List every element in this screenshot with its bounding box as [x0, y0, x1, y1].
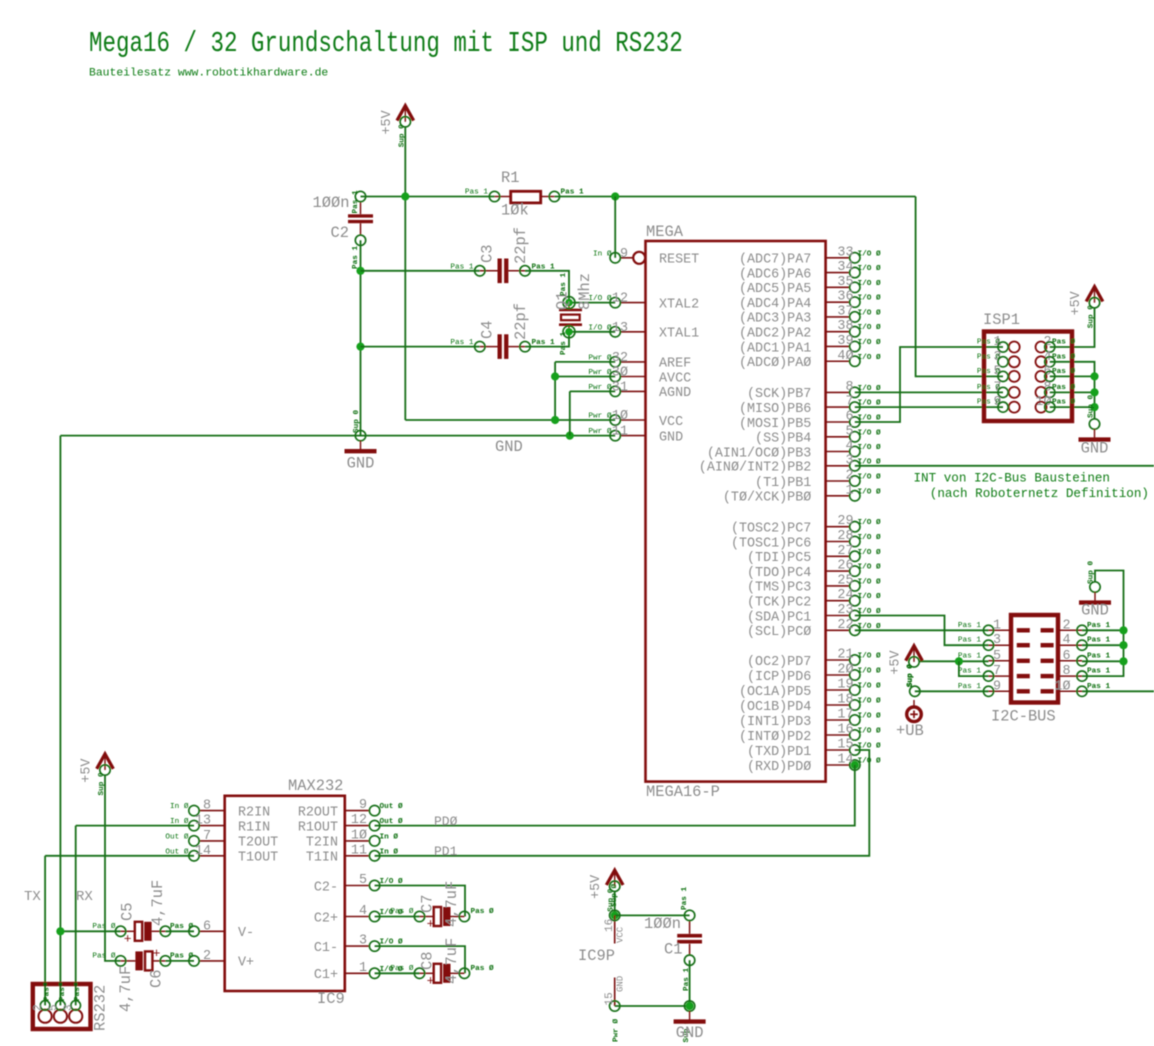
RS232 pin 2 — [33, 983, 52, 1023]
MEGA pin 21 (OC2)PD7 — [747, 648, 881, 670]
MEGA pin 29 (TOSC2)PC7 — [731, 514, 881, 536]
svg-text:V+: V+ — [238, 956, 254, 971]
wire GND rail horizontal — [60, 435, 615, 437]
I2C-BUS pin 9 — [958, 679, 1030, 696]
svg-text:(T1)PB1: (T1)PB1 — [755, 476, 811, 491]
wire C6 to V+ — [165, 960, 194, 962]
svg-text:12: 12 — [612, 292, 628, 307]
svg-text:22pf: 22pf — [512, 303, 530, 340]
svg-text:Pas Ø: Pas Ø — [1052, 352, 1075, 361]
svg-text:4: 4 — [359, 904, 367, 919]
svg-text:8: 8 — [203, 799, 211, 814]
wire C4 row from rail to cap — [361, 346, 480, 348]
ISP1 pin 2 — [1036, 335, 1076, 353]
capacitor C6 4,7uF — [115, 946, 170, 970]
svg-text:I/O Ø: I/O Ø — [858, 487, 881, 496]
svg-text:Bauteilesatz www.robotikhardwa: Bauteilesatz www.robotikhardware.de — [89, 68, 328, 80]
svg-text:2: 2 — [845, 469, 853, 484]
svg-text:(INT1)PD3: (INT1)PD3 — [739, 715, 811, 730]
svg-text:(SDA)PC1: (SDA)PC1 — [747, 610, 811, 625]
svg-text:I/O Ø: I/O Ø — [858, 308, 881, 317]
svg-text:Pas 1: Pas 1 — [1087, 683, 1110, 691]
svg-text:C1+: C1+ — [314, 968, 338, 983]
supply +5V (IC9P) — [589, 870, 623, 912]
svg-text:+: + — [427, 973, 435, 988]
svg-text:RX: RX — [76, 889, 93, 905]
wire ISP pin8 row — [1050, 391, 1095, 393]
svg-text:AGND: AGND — [659, 386, 691, 401]
junction GND C5 row — [56, 927, 64, 935]
svg-text:I/O Ø: I/O Ø — [858, 279, 881, 288]
svg-text:(TOSC2)PC7: (TOSC2)PC7 — [731, 522, 811, 537]
wire C1- to C8 — [375, 946, 465, 973]
svg-text:MEGA: MEGA — [646, 223, 684, 241]
svg-text:23: 23 — [837, 603, 853, 618]
svg-text:C8: C8 — [419, 952, 437, 970]
svg-text:I/O Ø: I/O Ø — [858, 249, 881, 258]
wire AREF riser vertical — [554, 362, 556, 420]
svg-text:(ADC4)PA4: (ADC4)PA4 — [739, 297, 811, 312]
svg-text:(ADCØ)PAØ: (ADCØ)PAØ — [739, 356, 811, 371]
svg-text:Pas 1: Pas 1 — [352, 190, 360, 213]
ISP1 pin 6 — [1036, 364, 1076, 382]
supply +5V (ISP) — [1069, 287, 1103, 329]
MEGA pin 27 (TDI)PC5 — [747, 544, 881, 566]
svg-text:In Ø: In Ø — [380, 847, 399, 856]
MAX232 pin 14 T1OUT — [165, 844, 278, 866]
svg-text:GND: GND — [616, 976, 626, 992]
svg-text:In Ø: In Ø — [593, 249, 612, 258]
MEGA pin 18 (OC1B)PD4 — [739, 693, 881, 715]
MEGA pin 31 AGND — [588, 380, 691, 401]
svg-text:9: 9 — [620, 247, 628, 262]
capacitor C2 plates — [348, 191, 373, 245]
wire C3 row from rail to cap — [361, 270, 480, 272]
svg-text:4: 4 — [845, 439, 853, 454]
svg-text:VCC: VCC — [616, 926, 626, 943]
svg-text:+UB: +UB — [896, 722, 924, 740]
wire AREF row to pin — [555, 361, 615, 363]
svg-text:Out Ø: Out Ø — [380, 817, 403, 826]
wire SDA PC1 to I2C pin3 — [855, 616, 989, 646]
IC IC9 MAX232 outline — [225, 796, 345, 991]
svg-text:Pas Ø: Pas Ø — [1052, 367, 1075, 376]
wire C2 to GND rail vertical — [360, 240, 362, 435]
capacitor C5 4,7uF — [115, 922, 170, 947]
wire I2C pin10 to right edge — [1082, 690, 1154, 692]
svg-text:R1IN: R1IN — [238, 820, 270, 835]
svg-text:T1IN: T1IN — [306, 851, 338, 866]
svg-text:C5: C5 — [119, 903, 137, 921]
I2C-BUS pin 1 — [958, 618, 1030, 635]
svg-text:+: + — [427, 917, 435, 932]
wire I2C pin6 row — [1082, 660, 1124, 662]
junction C3 row on C2 drop — [356, 267, 364, 275]
svg-text:Out Ø: Out Ø — [380, 802, 403, 811]
svg-text:C7: C7 — [419, 895, 437, 913]
svg-text:31: 31 — [612, 380, 628, 395]
MEGA pin 32 AREF — [588, 351, 691, 372]
MEGA pin 36 (ADC4)PA4 — [739, 290, 881, 312]
wire XTAL1 row — [569, 331, 615, 333]
wire RESET net from R1 to ISP riser — [554, 196, 915, 198]
svg-text:IC9P: IC9P — [578, 947, 615, 965]
svg-text:+: + — [153, 946, 161, 961]
svg-text:RESET: RESET — [659, 253, 699, 268]
svg-text:+: + — [124, 932, 132, 947]
junction C1 GND — [686, 1002, 694, 1010]
svg-text:I/O Ø: I/O Ø — [588, 323, 611, 332]
svg-text:C2+: C2+ — [314, 911, 338, 926]
svg-text:(ADC1)PA1: (ADC1)PA1 — [739, 341, 811, 356]
junction RESET drop to MEGA pin 9 — [611, 192, 619, 200]
supply +UB — [907, 686, 922, 722]
svg-text:In Ø: In Ø — [170, 802, 189, 811]
ground symbol GND (ISP) — [1079, 419, 1111, 458]
svg-text:Pas Ø: Pas Ø — [977, 367, 1000, 376]
svg-text:(ADC6)PA6: (ADC6)PA6 — [739, 267, 811, 282]
svg-text:Pas 1: Pas 1 — [352, 246, 360, 269]
svg-text:(ADC5)PA5: (ADC5)PA5 — [739, 282, 811, 297]
svg-text:PD1: PD1 — [434, 844, 458, 859]
svg-text:Pas 1: Pas 1 — [1087, 622, 1110, 630]
svg-text:(TMS)PC3: (TMS)PC3 — [747, 581, 811, 596]
MEGA pin 15 (TXD)PD1 — [747, 738, 881, 760]
svg-text:Pwr Ø: Pwr Ø — [588, 412, 611, 421]
wire TX drop to RS232 — [44, 856, 46, 1006]
svg-text:Pas 1: Pas 1 — [561, 189, 584, 197]
junction I2C pin6 GND — [1119, 657, 1127, 665]
svg-text:Pas 1: Pas 1 — [958, 637, 981, 645]
svg-text:1Ø: 1Ø — [351, 828, 367, 843]
svg-text:GND: GND — [1081, 602, 1109, 620]
svg-text:(INTØ)PD2: (INTØ)PD2 — [739, 730, 811, 745]
svg-text:6: 6 — [203, 919, 211, 934]
svg-text:1: 1 — [359, 961, 367, 976]
crystal Q1 body — [559, 297, 582, 338]
I2C-BUS pin 8 — [1041, 664, 1111, 681]
svg-text:11: 11 — [351, 843, 367, 858]
svg-text:(TDO)PC4: (TDO)PC4 — [747, 566, 811, 581]
svg-text:Pas Ø: Pas Ø — [977, 338, 1000, 347]
MEGA pin 3 (AIN0/INT2)PB2 — [699, 453, 881, 475]
svg-text:3: 3 — [63, 1004, 75, 1011]
svg-text:I/O Ø: I/O Ø — [858, 577, 881, 586]
svg-text:Sup Ø: Sup Ø — [610, 884, 619, 907]
svg-text:9: 9 — [359, 798, 367, 813]
svg-text:C3: C3 — [479, 245, 497, 263]
svg-text:(TØ/XCK)PBØ: (TØ/XCK)PBØ — [723, 491, 811, 506]
svg-text:I/O Ø: I/O Ø — [858, 473, 881, 482]
wire +5V vertical from supply to VCC corner — [404, 127, 406, 420]
svg-text:Pas 1: Pas 1 — [958, 652, 981, 660]
junction ISP pin8 GND bus — [1090, 388, 1098, 396]
MEGA pin 19 (OC1A)PD5 — [739, 678, 881, 700]
svg-text:1ØØn: 1ØØn — [644, 915, 681, 933]
MEGA pin 22 (SCL)PC0 — [747, 618, 881, 640]
svg-text:Pas Ø: Pas Ø — [471, 907, 494, 916]
MAX232 pin 6 V- — [189, 919, 254, 941]
svg-text:26: 26 — [837, 559, 853, 574]
svg-text:13: 13 — [612, 321, 628, 336]
RS232 pin 5 — [48, 983, 67, 1023]
svg-text:6: 6 — [845, 410, 853, 425]
svg-text:28: 28 — [837, 529, 853, 544]
svg-text:Pas Ø: Pas Ø — [977, 383, 1000, 392]
ISP1 pin 3 — [977, 350, 1020, 368]
svg-text:8: 8 — [845, 380, 853, 395]
svg-text:12: 12 — [351, 813, 367, 828]
MEGA pin 40 (ADC0)PA0 — [739, 349, 881, 371]
wire AVCC row to pin — [555, 376, 615, 378]
svg-text:XTAL1: XTAL1 — [659, 327, 699, 342]
MAX232 pin 4 C2+ — [314, 904, 403, 926]
wire C1+ to C8 — [375, 972, 420, 974]
svg-text:39: 39 — [837, 334, 853, 349]
MEGA pin 28 (TOSC1)PC6 — [731, 529, 881, 551]
svg-text:Pas Ø: Pas Ø — [977, 398, 1000, 407]
svg-text:Pas 1: Pas 1 — [450, 339, 473, 347]
svg-text:+5V: +5V — [889, 650, 904, 674]
MEGA pin 24 (TCK)PC2 — [747, 588, 881, 610]
junction I2C pin2 GND — [1119, 626, 1127, 634]
svg-text:2: 2 — [203, 949, 211, 964]
svg-text:+5V: +5V — [1069, 291, 1084, 315]
capacitor C1 plates — [677, 910, 702, 965]
svg-text:I/O Ø: I/O Ø — [858, 667, 881, 676]
svg-text:Pas 1: Pas 1 — [450, 263, 473, 271]
svg-text:AVCC: AVCC — [659, 371, 691, 386]
svg-text:(ADC2)PA2: (ADC2)PA2 — [739, 327, 811, 342]
IC9P pin15 — [604, 976, 626, 1042]
wire +5V to I2C pin5 — [919, 660, 989, 662]
svg-text:Pwr Ø: Pwr Ø — [588, 383, 611, 392]
svg-text:27: 27 — [837, 544, 853, 559]
svg-text:33: 33 — [837, 245, 853, 260]
svg-text:T1OUT: T1OUT — [238, 851, 278, 866]
svg-text:(SS)PB4: (SS)PB4 — [755, 432, 811, 447]
connector I2C-BUS outline — [1011, 615, 1058, 703]
svg-text:16: 16 — [604, 919, 616, 932]
svg-text:(SCK)PB7: (SCK)PB7 — [747, 387, 811, 402]
I2C-BUS pin 3 — [958, 633, 1030, 650]
MEGA pin 37 (ADC3)PA3 — [739, 304, 881, 326]
wire +5V horizontal C2 to R1 — [361, 196, 495, 198]
MEGA pin 20 (ICP)PD6 — [747, 663, 881, 685]
svg-text:Pas Ø: Pas Ø — [92, 952, 115, 961]
svg-text:(TXD)PD1: (TXD)PD1 — [747, 745, 811, 760]
I2C-BUS pin 7 — [958, 664, 1030, 681]
connector ISP1 outline — [984, 332, 1072, 422]
svg-text:+5V: +5V — [380, 110, 395, 134]
junction VCC riser — [551, 416, 559, 424]
svg-text:I/O Ø: I/O Ø — [858, 533, 881, 542]
MAX232 pin 8 R2IN — [170, 799, 270, 821]
wire +5V to VCC pin16 — [614, 892, 616, 916]
svg-text:C2: C2 — [331, 224, 349, 242]
svg-text:Pwr Ø: Pwr Ø — [588, 427, 611, 436]
svg-text:MEGA16-P: MEGA16-P — [646, 783, 720, 801]
svg-text:24: 24 — [837, 588, 853, 603]
svg-text:Pas 1: Pas 1 — [1087, 637, 1110, 645]
I2C-BUS pin 5 — [958, 649, 1030, 666]
svg-text:R1: R1 — [501, 169, 519, 187]
MEGA pin 13 XTAL1 — [588, 321, 699, 342]
svg-text:I/O Ø: I/O Ø — [858, 353, 881, 362]
ISP1 pin 9 — [977, 395, 1020, 413]
svg-text:17: 17 — [837, 708, 853, 723]
svg-text:Pas 1: Pas 1 — [958, 622, 981, 630]
svg-text:I/O Ø: I/O Ø — [858, 518, 881, 527]
svg-text:Pas Ø: Pas Ø — [1052, 383, 1075, 392]
MAX232 pin 11 T1IN — [306, 843, 398, 865]
svg-text:11: 11 — [612, 425, 628, 440]
MEGA pin 17 (INT1)PD3 — [739, 708, 881, 730]
svg-text:Pas Ø: Pas Ø — [170, 922, 193, 931]
MAX232 pin 3 C1- — [314, 934, 403, 956]
MEGA pin 5 (SS)PB4 — [755, 424, 881, 446]
svg-text:I/O Ø: I/O Ø — [858, 428, 881, 437]
MEGA pin 30 AVCC — [588, 366, 691, 387]
svg-text:Out Ø: Out Ø — [165, 832, 188, 841]
wire C3 to crystal top — [525, 271, 569, 303]
svg-text:I/O Ø: I/O Ø — [858, 443, 881, 452]
svg-text:Pas 1: Pas 1 — [681, 887, 689, 910]
MEGA pin 4 (AIN1/OC0)PB3 — [707, 439, 881, 461]
MEGA pin 39 (ADC1)PA1 — [739, 334, 881, 356]
MEGA pin 35 (ADC5)PA5 — [739, 275, 881, 297]
svg-text:I/O Ø: I/O Ø — [858, 563, 881, 572]
wire RESET riser to ISP pin 5 — [916, 197, 1003, 377]
svg-text:(RXD)PDØ: (RXD)PDØ — [747, 760, 811, 775]
svg-text:Pas 1: Pas 1 — [560, 332, 568, 355]
IC U1 MEGA16-P outline — [646, 241, 826, 782]
svg-text:Pas 1: Pas 1 — [560, 273, 568, 296]
ground symbol GND (IC9P) — [674, 1001, 706, 1042]
svg-text:(ADC3)PA3: (ADC3)PA3 — [739, 312, 811, 327]
svg-text:(MISO)PB6: (MISO)PB6 — [739, 402, 811, 417]
junction ISP pin6 GND bus — [1090, 372, 1098, 380]
I2C-BUS pin 2 — [1041, 618, 1111, 635]
svg-text:ISP1: ISP1 — [983, 311, 1020, 329]
wire GND rail left drop to RS232 — [59, 436, 61, 1006]
svg-text:(OC2)PD7: (OC2)PD7 — [747, 655, 811, 670]
junction ISP pin10 GND bus — [1090, 403, 1098, 411]
svg-text:1Øk: 1Øk — [501, 202, 529, 220]
svg-text:I/O Ø: I/O Ø — [858, 697, 881, 706]
ISP1 pin 7 — [977, 380, 1020, 398]
wire TX T1OUT net — [45, 855, 194, 857]
svg-text:1ØØn: 1ØØn — [313, 194, 350, 212]
svg-text:Pas: Pas — [74, 987, 82, 1001]
IC9P pin16 — [604, 884, 626, 944]
junction +5V I2C split — [955, 657, 963, 665]
wire VCC row to pin — [555, 419, 615, 421]
svg-text:I/O Ø: I/O Ø — [858, 294, 881, 303]
wire C5 to V- — [165, 930, 194, 932]
svg-text:Pas 1: Pas 1 — [1087, 668, 1110, 676]
svg-text:I/O Ø: I/O Ø — [858, 652, 881, 661]
wire ISP pin6 row — [1050, 375, 1095, 377]
svg-text:4,7uF: 4,7uF — [149, 880, 167, 926]
connector RS232 outline — [33, 984, 91, 1029]
svg-text:35: 35 — [837, 275, 853, 290]
svg-text:5: 5 — [359, 873, 367, 888]
wire +UB to I2C pin9 — [915, 690, 989, 692]
ground symbol GND (I2C) — [1079, 582, 1111, 620]
MEGA pin 7 (MISO)PB6 — [739, 395, 881, 417]
MEGA pin 6 (MOSI)PB5 — [739, 410, 881, 432]
svg-text:15: 15 — [604, 992, 616, 1005]
wire MOSI PB5 to ISP pin1 — [855, 347, 1003, 422]
MAX232 pin 13 R1IN — [170, 814, 270, 836]
svg-text:Pas Ø: Pas Ø — [1052, 398, 1075, 407]
capacitor C7 4,7uF — [414, 907, 469, 932]
junction VCC pin16 — [611, 911, 619, 919]
wire AGND row to pin — [570, 390, 615, 392]
ISP1 pin 8 — [1036, 380, 1076, 398]
svg-text:Pas Ø: Pas Ø — [1052, 338, 1075, 347]
wire PD1 net — [375, 750, 870, 856]
svg-text:Sup 0: Sup 0 — [1088, 561, 1096, 584]
svg-text:4,7uF: 4,7uF — [443, 881, 461, 927]
svg-text:Pwr Ø: Pwr Ø — [612, 1019, 621, 1042]
svg-text:1Ø: 1Ø — [612, 409, 628, 424]
capacitor C8 4,7uF — [414, 964, 469, 989]
junction AGND riser on GND rail — [566, 432, 574, 440]
svg-text:8Mhz: 8Mhz — [576, 273, 594, 310]
svg-text:21: 21 — [837, 648, 853, 663]
svg-text:Sup 0: Sup 0 — [353, 410, 361, 433]
svg-text:38: 38 — [837, 319, 853, 334]
MEGA pin 14 (RXD)PD0 — [747, 753, 881, 775]
svg-text:I/O Ø: I/O Ø — [588, 294, 611, 303]
svg-text:Pas 1: Pas 1 — [958, 668, 981, 676]
svg-text:Sup 0: Sup 0 — [1088, 395, 1096, 418]
svg-text:32: 32 — [612, 351, 628, 366]
svg-text:Pas 1: Pas 1 — [532, 339, 555, 347]
svg-text:R2OUT: R2OUT — [298, 805, 338, 820]
svg-text:14: 14 — [195, 844, 211, 859]
svg-text:25: 25 — [837, 573, 853, 588]
svg-text:3: 3 — [845, 453, 853, 468]
svg-text:GND: GND — [676, 1024, 704, 1042]
svg-text:INT von I2C-Bus Bausteinen: INT von I2C-Bus Bausteinen — [914, 472, 1111, 486]
junction AVCC riser — [551, 372, 559, 380]
junction C4 row on C2 drop — [356, 343, 364, 351]
I2C-BUS pin 4 — [1041, 633, 1111, 650]
svg-text:I/O Ø: I/O Ø — [858, 264, 881, 273]
wire I2C pin7 from +5V — [959, 661, 989, 676]
ISP1 pin 10 — [1035, 395, 1075, 413]
svg-text:(OC1B)PD4: (OC1B)PD4 — [739, 700, 811, 715]
svg-text:29: 29 — [837, 514, 853, 529]
supply +5V (I2C) — [889, 646, 923, 688]
I2C-BUS pin 10 — [1041, 679, 1111, 696]
svg-text:C2-: C2- — [314, 880, 338, 895]
svg-text:Pas 1: Pas 1 — [532, 263, 555, 271]
svg-text:GND: GND — [347, 455, 375, 473]
svg-text:VCC: VCC — [659, 415, 683, 430]
MAX232 pin 10 T2IN — [306, 828, 398, 850]
svg-text:Pas Ø: Pas Ø — [390, 907, 413, 916]
junction crystal bottom pin — [565, 328, 573, 336]
MEGA pin 2 (T1)PB1 — [755, 469, 881, 491]
wire RX drop to RS232 — [75, 826, 77, 1006]
svg-text:16: 16 — [837, 723, 853, 738]
MAX232 pin 7 T2OUT — [165, 829, 278, 851]
junction PD0 pin — [851, 761, 859, 769]
